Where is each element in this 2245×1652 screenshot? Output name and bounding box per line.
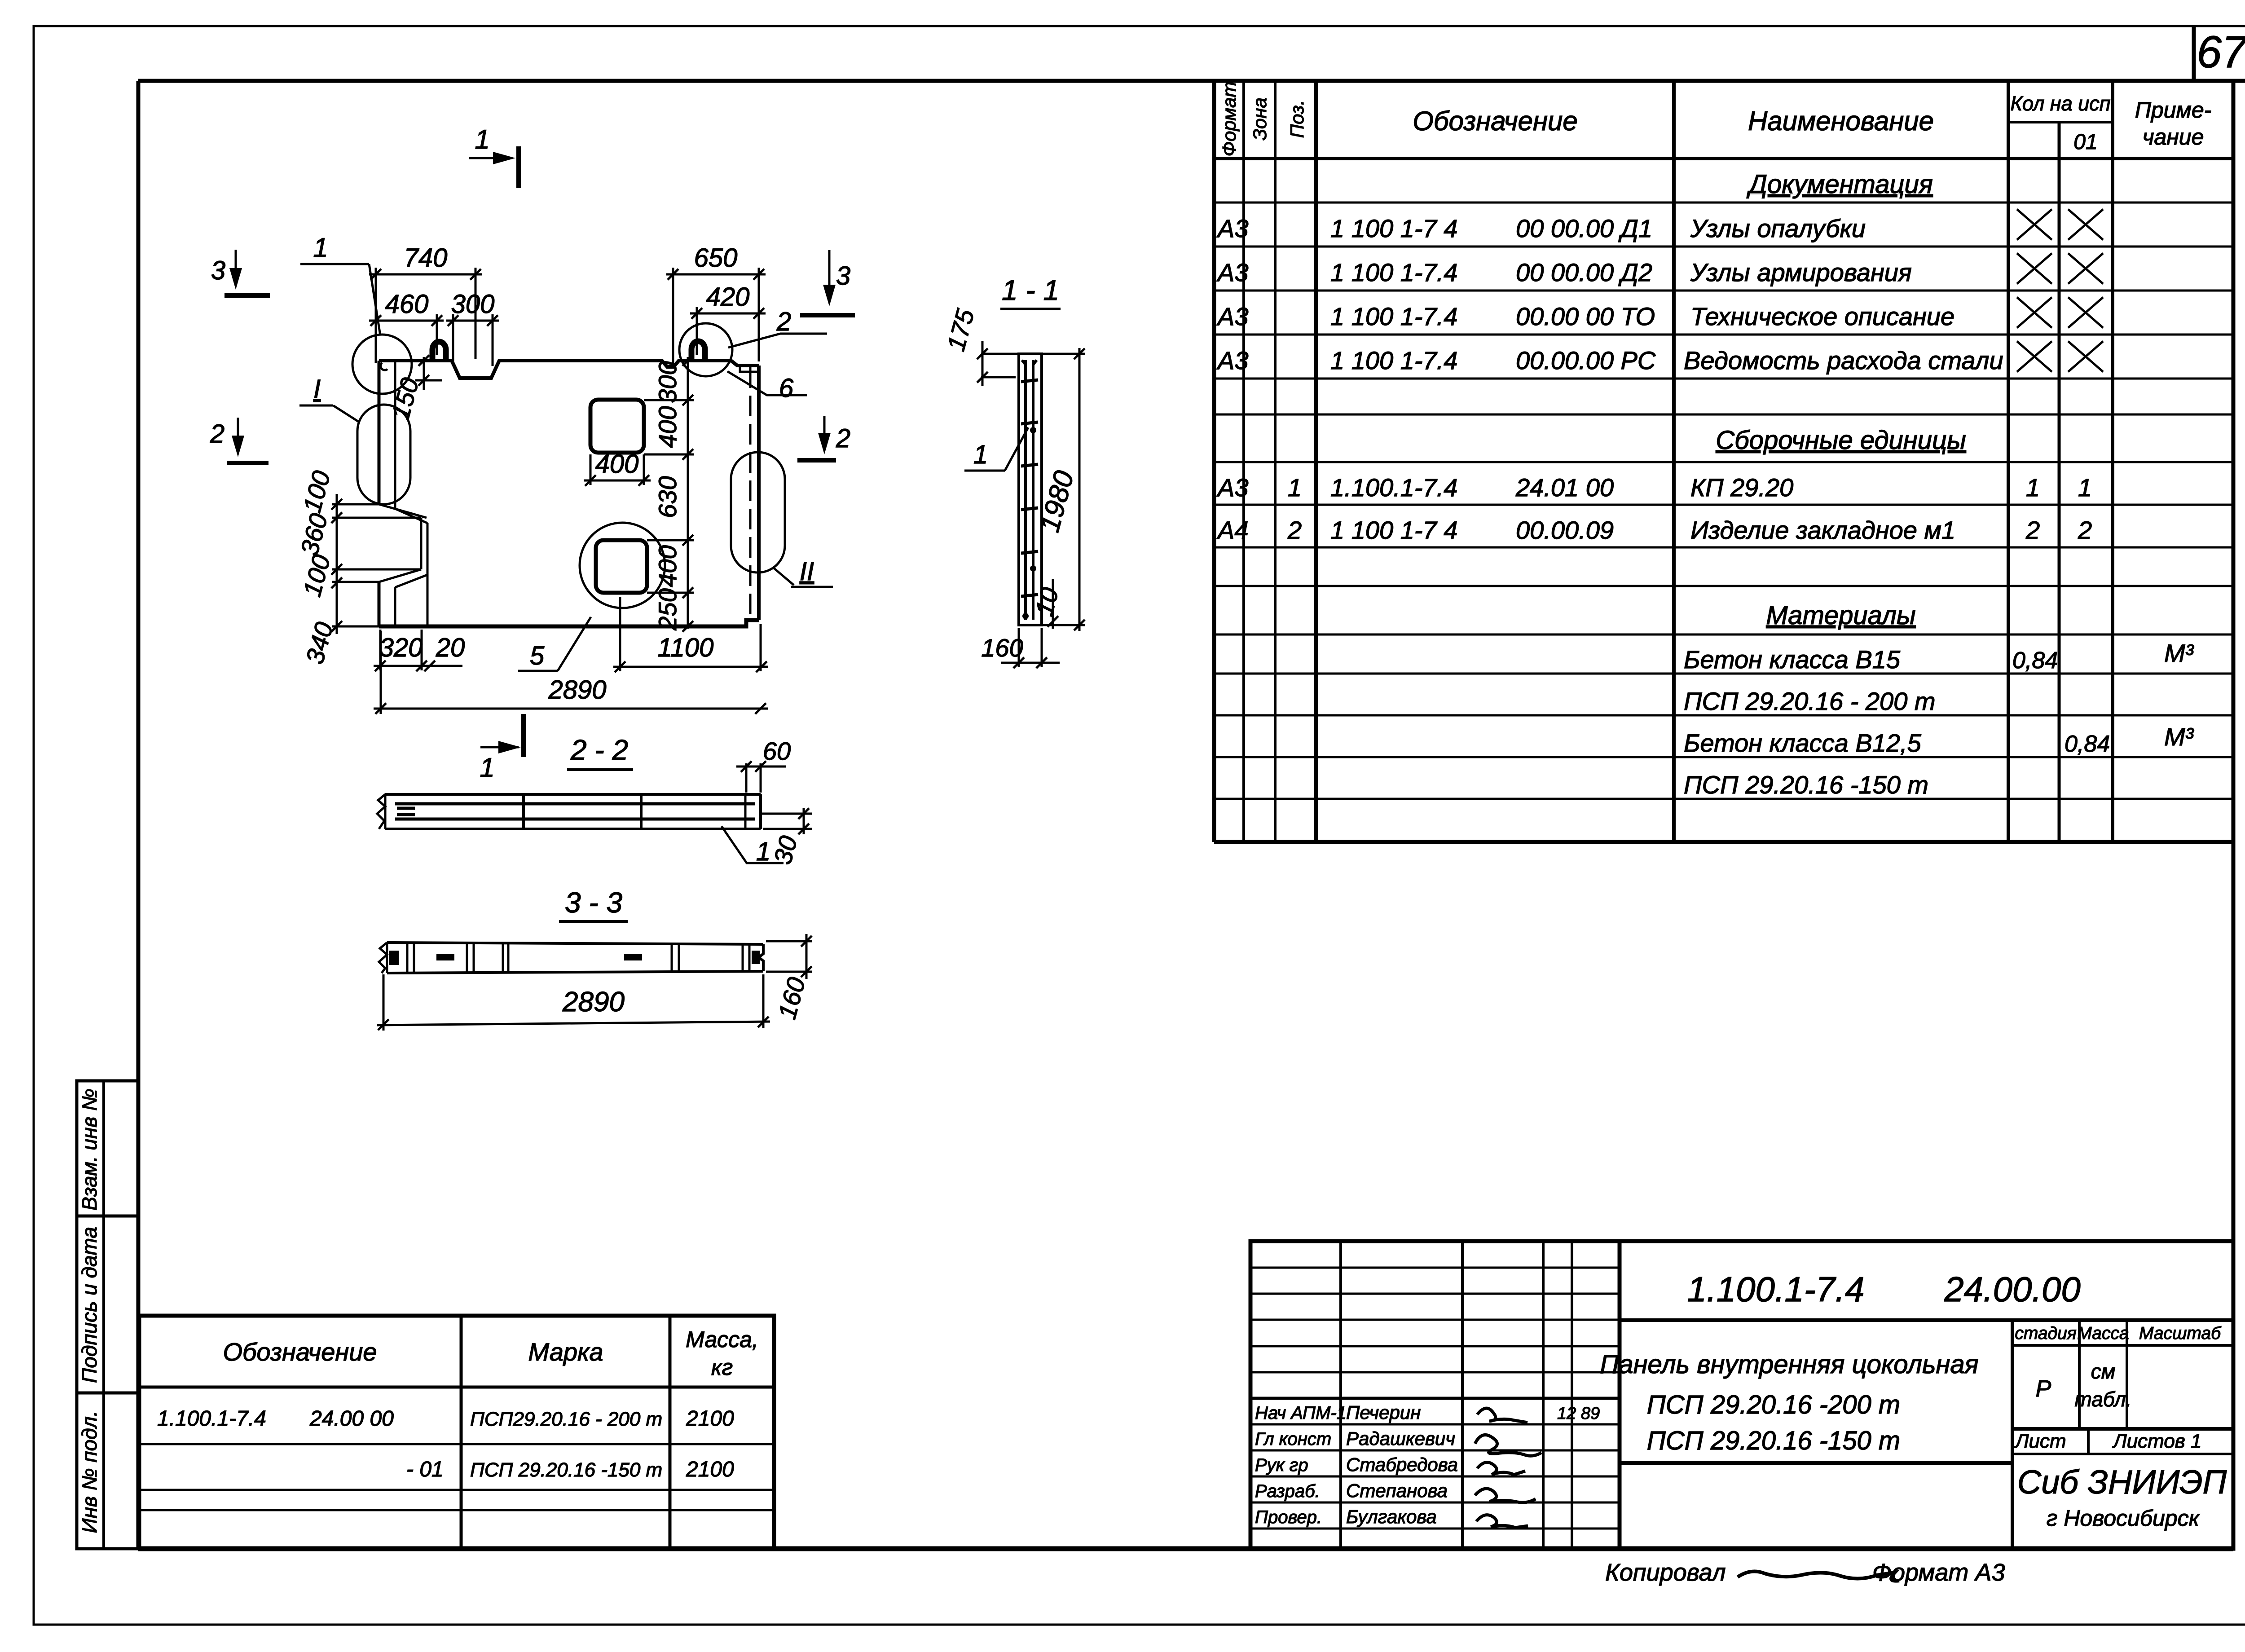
column divider 2 — [669, 1316, 672, 1548]
svg-text:1 100 1-7 4: 1 100 1-7 4 — [1330, 516, 1457, 544]
svg-text:1 100 1-7.4: 1 100 1-7.4 — [1330, 258, 1457, 286]
svg-text:1100: 1100 — [658, 633, 714, 662]
signature area vertical line 2 — [1461, 1241, 1464, 1549]
svg-text:0,84: 0,84 — [2065, 731, 2110, 757]
svg-text:Масштаб: Масштаб — [2139, 1324, 2222, 1343]
table outline — [139, 1316, 774, 1548]
dim 160 — [806, 934, 808, 979]
row line 13 — [1214, 714, 2233, 717]
svg-text:1: 1 — [756, 837, 770, 866]
strip cell divider 2 — [77, 1392, 138, 1395]
стадия cells bottom — [2012, 1427, 2233, 1431]
Масса/Масштаб divider — [2126, 1320, 2128, 1429]
svg-text:2 - 2: 2 - 2 — [570, 734, 628, 766]
svg-text:1.100.1-7.4: 1.100.1-7.4 — [1687, 1269, 1865, 1309]
svg-text:300: 300 — [653, 361, 682, 403]
svg-text:Формат А3: Формат А3 — [1872, 1559, 2005, 1586]
dim 420 — [690, 313, 766, 315]
svg-text:Нач АПМ-1: Нач АПМ-1 — [1255, 1403, 1347, 1423]
svg-text:12 89: 12 89 — [1557, 1404, 1600, 1423]
svg-text:А3: А3 — [1216, 302, 1249, 330]
rebar vertical 1 — [1024, 360, 1027, 620]
dim 150 vertical — [423, 357, 425, 390]
rebar crossbars — [1021, 380, 1038, 382]
title block outline — [1250, 1241, 2233, 1549]
svg-text:Зона: Зона — [1249, 97, 1270, 141]
dim 175 — [982, 341, 984, 386]
svg-text:Масса: Масса — [2077, 1324, 2129, 1343]
panel top edge with recesses — [379, 361, 759, 378]
signature area vertical line 3 — [1542, 1241, 1545, 1549]
svg-text:ПСП 29.20.16 -150 т: ПСП 29.20.16 -150 т — [1684, 771, 1928, 799]
svg-text:1: 1 — [480, 753, 494, 783]
svg-text:Бетон класса В12,5: Бетон класса В12,5 — [1684, 729, 1922, 757]
svg-text:1.100.1-7.4: 1.100.1-7.4 — [157, 1407, 266, 1431]
svg-text:А3: А3 — [1216, 346, 1249, 374]
svg-text:3: 3 — [211, 256, 225, 285]
strip outline — [77, 1081, 138, 1549]
svg-text:400: 400 — [595, 449, 639, 479]
svg-text:Степанова: Степанова — [1346, 1480, 1448, 1501]
row line 3 — [1214, 290, 2233, 292]
svg-text:Р: Р — [2036, 1376, 2051, 1402]
svg-text:А3: А3 — [1216, 214, 1249, 242]
dim 30 — [761, 813, 812, 815]
row line 2 — [139, 1489, 774, 1491]
dim chain left 100/360/100/340 — [336, 494, 338, 634]
row line 7 — [1214, 461, 2233, 463]
svg-text:Обозначение: Обозначение — [1413, 106, 1578, 136]
right section divider — [2011, 1320, 2014, 1549]
lifting loop 2 — [691, 341, 705, 361]
копировал signature — [1738, 1572, 1899, 1581]
svg-text:Бетон класса В15: Бетон класса В15 — [1684, 645, 1901, 674]
svg-text:650: 650 — [694, 243, 738, 273]
svg-text:Подпись и дата: Подпись и дата — [78, 1227, 101, 1383]
svg-text:1 100 1-7.4: 1 100 1-7.4 — [1330, 302, 1457, 330]
sheet number box — [2192, 26, 2196, 81]
svg-text:1: 1 — [2078, 473, 2092, 502]
svg-text:Техническое описание: Техническое описание — [1690, 302, 1954, 330]
svg-text:00.00 00 ТО: 00.00 00 ТО — [1516, 302, 1655, 330]
left rib inner line lower — [394, 587, 396, 626]
svg-text:Масса,: Масса, — [686, 1327, 758, 1352]
svg-text:стадия: стадия — [2015, 1324, 2076, 1343]
svg-text:420: 420 — [706, 282, 750, 312]
dim 60 — [745, 763, 748, 793]
svg-text:2: 2 — [776, 307, 791, 336]
panel bottom edge with right step — [379, 620, 759, 626]
svg-text:5: 5 — [530, 641, 545, 670]
specification table — [1214, 81, 2233, 842]
keyway back vertical outer — [420, 518, 423, 569]
svg-text:Узлы опалубки: Узлы опалубки — [1690, 214, 1866, 242]
svg-text:А4: А4 — [1216, 516, 1249, 544]
divider pair 5 — [742, 943, 744, 973]
svg-text:Наименование: Наименование — [1748, 106, 1934, 136]
table left edge — [1212, 81, 1216, 842]
strip cell divider 1 — [77, 1215, 138, 1218]
rebar line bottom — [395, 818, 755, 821]
стадия header bottom — [2012, 1344, 2233, 1347]
svg-text:ПСП 29.20.16 - 200 т: ПСП 29.20.16 - 200 т — [1684, 687, 1936, 715]
svg-text:00.00.00 РС: 00.00.00 РС — [1516, 346, 1656, 374]
svg-text:кг: кг — [711, 1355, 733, 1380]
row line 1 — [139, 1443, 774, 1445]
column divider 1 — [460, 1316, 463, 1548]
svg-text:Лист: Лист — [2014, 1430, 2066, 1452]
svg-text:1: 1 — [313, 233, 328, 263]
detail circle 5 — [580, 523, 665, 608]
section 2-2 — [377, 734, 812, 867]
dim 2890 — [377, 1022, 770, 1025]
svg-text:Взам. инв №: Взам. инв № — [78, 1088, 101, 1211]
svg-text:400: 400 — [653, 545, 682, 587]
embedded plate 1 — [436, 954, 454, 960]
svg-text:Инв № подл.: Инв № подл. — [78, 1411, 101, 1533]
corner anchor hook — [381, 363, 387, 370]
svg-text:2100: 2100 — [686, 1458, 734, 1481]
svg-text:Листов 1: Листов 1 — [2112, 1430, 2202, 1452]
row line 4 — [1214, 334, 2233, 336]
svg-text:Изделие закладное м1: Изделие закладное м1 — [1690, 516, 1955, 544]
svg-text:ПСП 29.20.16 -150 т: ПСП 29.20.16 -150 т — [1647, 1426, 1900, 1455]
bar right end — [759, 794, 762, 829]
column line Кол/Примечание — [2111, 81, 2114, 842]
keyway lower slant inner — [395, 575, 427, 587]
svg-text:ПСП 29.20.16 -150 т: ПСП 29.20.16 -150 т — [470, 1459, 662, 1481]
svg-text:2: 2 — [836, 424, 850, 453]
svg-text:1: 1 — [973, 440, 988, 469]
bottom-left marks table — [139, 1316, 774, 1548]
dim 460 — [369, 320, 444, 322]
embedded plate 2 — [624, 954, 642, 960]
svg-text:2: 2 — [210, 419, 224, 449]
svg-text:1: 1 — [2026, 473, 2040, 502]
section 1-1 — [942, 274, 1085, 668]
svg-text:- 01: - 01 — [406, 1458, 444, 1481]
svg-text:2100: 2100 — [686, 1407, 734, 1431]
svg-text:00 00.00 Д1: 00 00.00 Д1 — [1516, 214, 1652, 242]
dim 650 — [666, 273, 766, 276]
svg-text:2: 2 — [2078, 516, 2092, 544]
lower opening 400x400 — [596, 540, 647, 593]
column line Формат — [1242, 81, 1245, 842]
svg-text:Узлы армирования: Узлы армирования — [1690, 258, 1912, 286]
panel left edge upper — [378, 361, 381, 504]
row line 1 — [1214, 202, 2233, 204]
dim 320 / 20 — [374, 665, 462, 667]
svg-text:Булгакова: Булгакова — [1346, 1506, 1437, 1527]
bar right end — [759, 944, 763, 971]
row line 5 — [1214, 378, 2233, 380]
svg-text:Провер.: Провер. — [1255, 1507, 1322, 1527]
svg-text:Печерин: Печерин — [1346, 1402, 1421, 1423]
dim 160 — [1001, 662, 1060, 664]
svg-text:Кол на исп: Кол на исп — [2010, 92, 2110, 115]
inner drawing frame bottom — [138, 1546, 2233, 1551]
dashed joint line — [749, 367, 752, 619]
svg-text:Поз.: Поз. — [1286, 100, 1307, 138]
row line 14 — [1214, 756, 2233, 758]
Лист row bottom — [2012, 1453, 2233, 1455]
column line Поз — [1314, 81, 1318, 842]
svg-text:160: 160 — [981, 634, 1023, 662]
svg-text:Радашкевич: Радашкевич — [1346, 1428, 1455, 1449]
stud divider 1 — [522, 796, 525, 828]
svg-text:3: 3 — [836, 261, 850, 291]
left break symbol — [377, 794, 385, 829]
panel left edge lower — [378, 582, 381, 626]
embedded plate right end — [752, 951, 760, 964]
dim 2890 — [374, 708, 768, 710]
svg-text:3 - 3: 3 - 3 — [565, 886, 622, 919]
dim chain right 300/400/630/400/250 — [687, 357, 689, 629]
svg-text:Материалы: Материалы — [1766, 601, 1915, 630]
svg-text:24.00.00: 24.00.00 — [1944, 1269, 2081, 1309]
svg-text:460: 460 — [385, 290, 429, 319]
svg-text:1 100 1-7.4: 1 100 1-7.4 — [1330, 346, 1457, 374]
detail circle 2 — [679, 323, 732, 376]
svg-text:24.01 00: 24.01 00 — [1515, 473, 1614, 502]
svg-text:Стабредова: Стабредова — [1346, 1454, 1458, 1475]
dim 1100 — [613, 666, 768, 668]
upper opening 400x400 — [590, 400, 644, 453]
svg-text:0,84: 0,84 — [2012, 648, 2058, 674]
strip column divider — [102, 1081, 105, 1549]
name cell bottom — [1620, 1461, 2012, 1465]
svg-text:1.100.1-7.4: 1.100.1-7.4 — [1330, 473, 1457, 502]
row line 6 — [1214, 414, 2233, 416]
svg-text:Разраб.: Разраб. — [1255, 1481, 1320, 1501]
rebar line top — [395, 802, 755, 806]
svg-text:20: 20 — [436, 633, 465, 662]
dim 1980 — [1078, 348, 1081, 631]
doc number cell bottom — [1620, 1318, 2233, 1322]
svg-text:I: I — [313, 374, 321, 404]
section 3-3 — [377, 886, 812, 1031]
svg-text:чание: чание — [2143, 124, 2204, 150]
embedded plate left end — [389, 951, 399, 965]
svg-text:320: 320 — [379, 633, 423, 662]
svg-text:II: II — [800, 557, 814, 586]
svg-text:400: 400 — [653, 406, 682, 448]
strip outline — [1019, 354, 1042, 625]
dim 10 — [1052, 579, 1054, 629]
svg-text:А3: А3 — [1216, 473, 1249, 502]
left rebar hooks — [397, 804, 415, 819]
header bottom line — [1214, 157, 2233, 160]
signature area vertical line 1 — [1339, 1241, 1342, 1549]
svg-text:ПСП 29.20.16 -200 т: ПСП 29.20.16 -200 т — [1647, 1390, 1900, 1419]
svg-text:2890: 2890 — [548, 675, 606, 705]
header split line 01 — [2008, 121, 2113, 123]
plan view drawing — [210, 124, 855, 783]
svg-text:М³: М³ — [2164, 722, 2194, 751]
row line 15 — [1214, 798, 2233, 800]
column line Зона — [1274, 81, 1277, 842]
left break symbol — [379, 943, 387, 973]
row line 2 — [1214, 246, 2233, 248]
inner drawing frame right — [2232, 81, 2236, 1549]
lifting loop 1 — [432, 342, 446, 361]
dim 740 — [369, 273, 482, 276]
column line Наименование/Кол — [2007, 81, 2010, 842]
svg-text:740: 740 — [404, 243, 448, 273]
svg-text:М³: М³ — [2164, 639, 2194, 667]
svg-text:Формат: Формат — [1219, 82, 1240, 157]
right end detail — [744, 796, 747, 828]
divider pair 2 — [466, 943, 468, 973]
inner drawing frame top — [138, 79, 2245, 83]
svg-text:Сборочные единицы: Сборочные единицы — [1716, 426, 1966, 455]
svg-text:Документация: Документация — [1746, 170, 1933, 199]
svg-text:Ведомость расхода стали: Ведомость расхода стали — [1684, 346, 2003, 374]
divider pair 4 — [671, 943, 673, 973]
title block — [1250, 1241, 2233, 1586]
svg-text:Гл конст: Гл конст — [1255, 1429, 1331, 1449]
bar outline — [387, 943, 763, 944]
detail circle 1 — [352, 335, 412, 394]
signature scribbles — [1477, 1408, 1527, 1423]
svg-text:Панель внутренняя цокольная: Панель внутренняя цокольная — [1600, 1350, 1978, 1379]
svg-text:630: 630 — [653, 476, 682, 518]
row line 9 — [1214, 546, 2233, 549]
left rib inner line upper — [394, 362, 396, 509]
column line Кол subdivision — [2058, 122, 2061, 842]
svg-text:1 - 1: 1 - 1 — [1002, 274, 1059, 306]
svg-text:1 100 1-7 4: 1 100 1-7 4 — [1330, 214, 1457, 242]
detail oval II — [731, 452, 785, 573]
rebar top hooks — [1022, 360, 1037, 365]
bar outline top — [385, 793, 761, 796]
stud divider 2 — [640, 796, 643, 828]
top edge extension — [981, 353, 1019, 355]
svg-text:6: 6 — [779, 374, 794, 403]
svg-text:60: 60 — [763, 737, 791, 765]
svg-text:Рук гр: Рук гр — [1255, 1455, 1308, 1475]
svg-text:Сиб ЗНИИЭП: Сиб ЗНИИЭП — [2017, 1463, 2227, 1501]
svg-text:г Новосибирск: г Новосибирск — [2047, 1506, 2201, 1531]
svg-text:Марка: Марка — [528, 1338, 603, 1366]
panel right edge — [757, 366, 761, 620]
header bottom — [139, 1386, 774, 1389]
svg-text:00.00.09: 00.00.09 — [1516, 516, 1614, 544]
svg-text:КП 29.20: КП 29.20 — [1690, 473, 1793, 502]
detail oval I — [357, 405, 410, 504]
keyway upper slant outer — [379, 504, 427, 518]
keyway lower slant outer — [379, 569, 421, 582]
row line 3 — [139, 1509, 774, 1511]
svg-text:ПСП29.20.16 - 200 т: ПСП29.20.16 - 200 т — [470, 1408, 662, 1430]
inner drawing frame left — [136, 81, 141, 1549]
svg-text:300: 300 — [451, 290, 495, 319]
стадия/Масса divider — [2078, 1320, 2081, 1429]
signature/name area divider — [1618, 1241, 1622, 1549]
svg-text:2: 2 — [1287, 516, 1302, 544]
svg-text:2890: 2890 — [562, 987, 625, 1018]
divider pair 1 — [406, 943, 409, 973]
svg-text:см: см — [2091, 1360, 2116, 1383]
signature rows top (thick) — [1250, 1397, 1620, 1400]
svg-text:табл.: табл. — [2075, 1388, 2132, 1411]
table bottom edge — [1214, 840, 2233, 844]
divider pair 3 — [502, 943, 504, 973]
svg-text:Приме-: Приме- — [2135, 97, 2212, 123]
rebar bottom dots — [1022, 613, 1029, 619]
svg-text:67: 67 — [2197, 27, 2245, 77]
column line Обозначение/Наименование — [1672, 81, 1676, 842]
signature area vertical line 4 — [1571, 1241, 1573, 1549]
svg-text:250: 250 — [653, 588, 682, 630]
svg-text:00 00.00 Д2: 00 00.00 Д2 — [1516, 258, 1652, 286]
upper grid row lines — [1250, 1267, 1620, 1269]
svg-text:01: 01 — [2073, 130, 2097, 154]
left attachment strip — [77, 1081, 138, 1549]
svg-text:Обозначение: Обозначение — [223, 1338, 377, 1366]
svg-text:А3: А3 — [1216, 258, 1249, 286]
row line 10 — [1214, 585, 2233, 587]
svg-text:Копировал: Копировал — [1605, 1559, 1726, 1586]
row line 8 — [1214, 504, 2233, 506]
svg-text:2: 2 — [2025, 516, 2040, 544]
svg-text:24.00 00: 24.00 00 — [309, 1407, 394, 1431]
row line 12 — [1214, 673, 2233, 675]
svg-text:1: 1 — [475, 124, 489, 154]
keyway upper slant inner — [395, 509, 427, 523]
rebar vertical 2 — [1032, 360, 1034, 620]
svg-text:1: 1 — [1288, 473, 1302, 502]
row line 11 — [1214, 634, 2233, 636]
dim 300 top — [446, 320, 499, 322]
bar outline bottom — [385, 828, 761, 830]
keyway back vertical inner full — [427, 523, 429, 626]
edge step detail 6 — [740, 366, 760, 372]
dim 400 under upper opening — [584, 480, 651, 482]
